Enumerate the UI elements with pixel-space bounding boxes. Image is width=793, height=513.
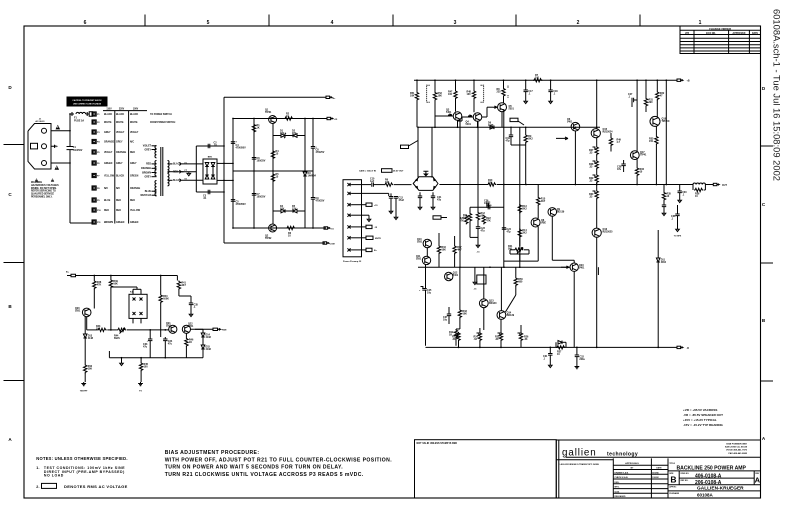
svg-text:-VR = -65.5V SPEAKER OUT: -VR = -65.5V SPEAKER OUT xyxy=(683,413,723,417)
ground c35 xyxy=(189,313,193,317)
wire J2 pin2 feedback xyxy=(362,192,389,194)
transistor Q13 driver pnp xyxy=(479,299,488,308)
warning triangle top xyxy=(56,125,61,130)
svg-text:10K: 10K xyxy=(113,283,118,286)
svg-text:ORANGE: ORANGE xyxy=(104,141,115,144)
svg-text:OUT: OUT xyxy=(722,185,727,187)
svg-text:47u: 47u xyxy=(481,230,486,233)
svg-text:47u: 47u xyxy=(143,346,148,349)
capacitor C1 line filter xyxy=(67,147,74,150)
capacitor C10 input coupling xyxy=(372,182,374,186)
capacitor C30 xyxy=(678,191,682,193)
wire secondary V2 to bridge xyxy=(184,179,204,181)
svg-text:220u: 220u xyxy=(579,358,585,361)
resistor R42 xyxy=(83,364,86,373)
connector J2 power-preamp xyxy=(343,180,362,257)
capacitor C31 xyxy=(548,354,552,356)
wire bias row xyxy=(87,329,98,331)
svg-text:Power Preamp J2: Power Preamp J2 xyxy=(343,261,362,263)
svg-text:B: B xyxy=(670,475,676,485)
svg-text:VBE: VBE xyxy=(541,222,546,225)
terminal +B rail xyxy=(677,79,681,81)
resistor R40 xyxy=(159,294,162,303)
svg-text:60108A: 60108A xyxy=(697,493,714,498)
resistor R39 xyxy=(109,279,112,288)
svg-text:GREY: GREY xyxy=(104,132,111,134)
svg-text:206-0108-A: 206-0108-A xyxy=(695,480,722,486)
approved-by cell xyxy=(668,490,761,492)
svg-text:GREEN: GREEN xyxy=(116,222,125,224)
svg-text:RED: RED xyxy=(146,164,151,166)
net flag mid xyxy=(510,118,518,121)
svg-text:TURN ON POWER AND WAIT 5 SECON: TURN ON POWER AND WAIT 5 SECONDS FOR TUR… xyxy=(165,465,344,471)
trimpot R44 xyxy=(117,328,126,331)
wire centre bus regulator xyxy=(272,124,274,225)
svg-text:BLACK: BLACK xyxy=(130,113,138,116)
terminal P2 xyxy=(92,120,96,124)
resistor R11 xyxy=(468,213,471,222)
svg-text:5968 PIONEER WAY: 5968 PIONEER WAY xyxy=(726,443,747,446)
svg-text:FILENAME: FILENAME xyxy=(669,492,679,495)
resistor R38 xyxy=(93,280,96,289)
title block outline xyxy=(556,440,760,498)
svg-text:10u: 10u xyxy=(443,319,448,322)
resistor R46 xyxy=(185,338,188,347)
capacitor C8 xyxy=(311,147,315,149)
connector J2 pin 6 xyxy=(347,236,351,239)
terminal +15 at J2 pin3 xyxy=(362,204,367,206)
wire vert 520 xyxy=(519,127,521,267)
svg-text:MFG.: MFG. xyxy=(615,487,620,489)
svg-text:22K: 22K xyxy=(488,182,493,185)
wire vert input xyxy=(417,127,419,177)
svg-text:GREY: GREY xyxy=(116,142,123,144)
svg-text:406-0108-A: 406-0108-A xyxy=(695,473,722,479)
svg-text:2.: 2. xyxy=(36,485,39,489)
chassis ground at J1 middle pin xyxy=(51,145,57,148)
junction dots main xyxy=(416,79,418,81)
wire bridge + output xyxy=(217,162,233,164)
capacitor C22 xyxy=(488,205,490,209)
wire vas vert 460 xyxy=(459,119,461,267)
svg-text:4148: 4148 xyxy=(206,348,212,351)
connector J2 pin 1 xyxy=(347,183,351,186)
wire delay top rail xyxy=(76,275,178,277)
junction dots delay xyxy=(93,275,95,277)
wire h 207 xyxy=(470,206,504,208)
svg-text:TIP32: TIP32 xyxy=(265,237,272,240)
wire J1 line pin to fuse bus xyxy=(51,130,70,132)
svg-text:FUSE 5A: FUSE 5A xyxy=(74,119,84,122)
ground vas xyxy=(476,244,480,248)
resistor R14 xyxy=(518,229,521,238)
svg-text:RED: RED xyxy=(116,200,121,202)
svg-text:CAUTION: TO PREVENT SHOCK: CAUTION: TO PREVENT SHOCK xyxy=(72,99,102,102)
base arrow marker xyxy=(556,137,568,140)
capacitor C35 xyxy=(189,303,193,305)
resistor R4 xyxy=(271,150,274,159)
svg-text:GAIN = 100mV IN: GAIN = 100mV IN xyxy=(359,169,376,172)
terminal -15V unreg xyxy=(324,227,328,229)
svg-text:10K: 10K xyxy=(463,313,468,316)
svg-text:QUALIFIED SERVICE: QUALIFIED SERVICE xyxy=(31,193,55,196)
svg-text:5551: 5551 xyxy=(188,325,194,328)
stamp box xyxy=(415,440,557,498)
title block horizontal divider xyxy=(566,456,761,458)
svg-text:47K: 47K xyxy=(460,220,465,223)
wire rectifier loop left xyxy=(195,146,197,192)
svg-text:1uF: 1uF xyxy=(370,180,375,183)
terminal P4 xyxy=(92,139,96,143)
svg-text:100: 100 xyxy=(448,93,453,96)
resistor R51 xyxy=(416,80,418,91)
svg-text:BLACK: BLACK xyxy=(116,175,124,178)
svg-text:28.5V OUT: 28.5V OUT xyxy=(393,170,404,172)
svg-text:47p: 47p xyxy=(437,199,442,202)
svg-text:2K2: 2K2 xyxy=(528,138,533,141)
resistor R6 input xyxy=(384,183,393,186)
svg-text:DENOTES RMS AC VOLTAGE: DENOTES RMS AC VOLTAGE xyxy=(64,484,128,489)
capacitor C11 xyxy=(389,197,393,199)
svg-text:BIAS: BIAS xyxy=(114,337,120,340)
svg-text:47K: 47K xyxy=(486,220,491,223)
resistor R26 emitter xyxy=(519,332,522,341)
transformer T1 core xyxy=(161,147,163,196)
transistor Q12 xyxy=(445,272,453,280)
svg-text:WHITE: WHITE xyxy=(130,122,138,124)
svg-text:100/25V: 100/25V xyxy=(257,160,266,163)
wire output rail xyxy=(590,184,693,186)
svg-text:1N4004: 1N4004 xyxy=(308,175,317,178)
svg-text:TIP31: TIP31 xyxy=(265,111,272,114)
svg-text:VIOLET: VIOLET xyxy=(143,146,152,148)
svg-text:TIP41: TIP41 xyxy=(640,154,647,157)
svg-text:ENG.: ENG. xyxy=(615,482,620,484)
svg-text:150: 150 xyxy=(649,140,654,143)
svg-text:15V: 15V xyxy=(292,132,297,135)
svg-text:PERSONNEL ONLY.: PERSONNEL ONLY. xyxy=(31,197,53,199)
svg-text:15V: 15V xyxy=(280,208,285,211)
svg-text:REFER SERVICING TO: REFER SERVICING TO xyxy=(31,191,56,193)
svg-text:TIP35C: TIP35C xyxy=(662,120,670,123)
svg-text:LTR: LTR xyxy=(685,33,690,35)
svg-text:BROWN: BROWN xyxy=(142,172,151,174)
svg-text:10u: 10u xyxy=(427,292,432,295)
svg-text:220: 220 xyxy=(497,91,502,94)
svg-text:APPROVED: APPROVED xyxy=(733,32,746,35)
inductor L1 output xyxy=(693,183,705,185)
svg-text:technology: technology xyxy=(607,451,638,457)
wire zener row top xyxy=(273,135,281,137)
wire neutral bus xyxy=(69,150,71,223)
svg-text:10K: 10K xyxy=(442,249,447,252)
test point TP1 xyxy=(81,382,86,386)
capacitor C37 xyxy=(448,307,450,314)
svg-text:NOT VALID UNLESS STAMP IS RED: NOT VALID UNLESS STAMP IS RED xyxy=(417,442,458,445)
resistor R22 xyxy=(482,215,485,224)
high voltage warning banner xyxy=(67,97,108,107)
capacitor C36 output xyxy=(677,205,679,214)
svg-text:VOICE 408-441-7970: VOICE 408-441-7970 xyxy=(726,449,748,452)
svg-text:GALLIEN-KRUEGER: GALLIEN-KRUEGER xyxy=(697,486,744,492)
resistor R37 on rail xyxy=(556,346,565,349)
wire drivers xyxy=(483,267,485,299)
zener D3 xyxy=(303,172,307,176)
frame zone ticks top xyxy=(144,15,146,27)
wire regulator mid rail xyxy=(233,170,313,172)
net flag 433 xyxy=(433,216,441,219)
svg-text:GREEN: GREEN xyxy=(130,222,139,224)
svg-text:APPVD:: APPVD: xyxy=(669,485,677,488)
svg-text:AC-IN-01: AC-IN-01 xyxy=(35,120,45,123)
svg-text:1K: 1K xyxy=(257,127,260,130)
svg-text:TO SPK: TO SPK xyxy=(674,236,682,238)
svg-text:47p: 47p xyxy=(506,140,511,143)
terminal P5 xyxy=(92,150,96,154)
connector J1 AC inlet xyxy=(28,124,51,170)
revision history table xyxy=(680,26,761,54)
connector J2 pin 2 xyxy=(347,192,351,195)
svg-text:100: 100 xyxy=(467,93,472,96)
transistor Q11 xyxy=(422,256,430,264)
wire J2 pin1 to C10 xyxy=(362,184,372,186)
svg-text:ORANGE: ORANGE xyxy=(116,151,127,154)
wire output column xyxy=(596,80,598,129)
wire h 261 xyxy=(504,260,538,262)
transistor Q10 xyxy=(423,239,431,247)
svg-text:N/C: N/C xyxy=(130,142,134,144)
svg-text:5551: 5551 xyxy=(416,258,422,261)
resistor R10 nfb xyxy=(487,183,496,186)
svg-text:2: 2 xyxy=(577,20,580,26)
svg-text:RED: RED xyxy=(116,210,121,212)
svg-text:GREY: GREY xyxy=(116,163,123,165)
resistor R13 xyxy=(518,204,521,213)
svg-text:ECO NO.: ECO NO. xyxy=(706,33,716,35)
resistor R52 xyxy=(434,80,436,91)
capacitor C28 xyxy=(621,164,625,166)
svg-text:TO POWER SWITCH: TO POWER SWITCH xyxy=(150,114,172,116)
svg-text:2K2: 2K2 xyxy=(522,208,527,211)
transistor Q5 vas top xyxy=(498,103,507,112)
svg-text:5551: 5551 xyxy=(75,310,81,313)
resistor R36 parallel L1 xyxy=(694,188,703,191)
transformer secondary winding xyxy=(168,161,170,173)
svg-text:BR1: BR1 xyxy=(208,157,213,159)
svg-text:60108A.sch-1 - Tue Jul 16 15:0: 60108A.sch-1 - Tue Jul 16 15:08:09 2002 xyxy=(772,9,783,181)
wire zener row bottom xyxy=(273,210,281,212)
diode D14 xyxy=(201,333,205,337)
svg-text:GREEN: GREEN xyxy=(104,163,113,165)
trimpot R21 bias adjust xyxy=(514,248,523,251)
svg-text:DRAWN K.A.B.: DRAWN K.A.B. xyxy=(615,471,630,474)
wire bridge - output xyxy=(217,179,233,181)
wire q5 collector xyxy=(501,112,503,128)
svg-text:5551: 5551 xyxy=(166,325,172,328)
svg-text:4148: 4148 xyxy=(488,124,494,127)
secondary net flags xyxy=(179,162,183,165)
terminal B+ raw xyxy=(326,96,330,98)
svg-text:BD139: BD139 xyxy=(507,314,515,317)
transformer primary taps xyxy=(152,145,157,147)
resistor R1 xyxy=(252,124,255,133)
svg-text:4K7: 4K7 xyxy=(541,200,546,203)
diode D11 xyxy=(656,258,660,262)
svg-text:NOTES: UNLESS OTHERWISE SPECIF: NOTES: UNLESS OTHERWISE SPECIFIED. xyxy=(36,456,127,461)
wire rectifier bottom xyxy=(196,191,224,193)
capacitor C27 xyxy=(632,98,634,102)
svg-text:10/3/95: 10/3/95 xyxy=(652,472,660,474)
svg-text:WITH POWER OFF, ADJUST POT R21: WITH POWER OFF, ADJUST POT R21 TO FULL C… xyxy=(165,457,393,463)
wire V- rail xyxy=(426,346,678,348)
wire neutral to P11 xyxy=(70,222,92,224)
svg-text:100p: 100p xyxy=(484,202,490,205)
wire q3 q4 bases xyxy=(435,115,453,117)
svg-text:QUA.: QUA. xyxy=(615,490,620,493)
zener D1 xyxy=(281,134,285,138)
resistor R19 xyxy=(454,329,457,338)
svg-text:100/25V: 100/25V xyxy=(257,196,266,199)
wire nfb to vas xyxy=(497,184,575,186)
svg-text:N/C: N/C xyxy=(104,188,108,190)
svg-text:BD139: BD139 xyxy=(557,211,565,214)
terminal -B rail xyxy=(677,346,681,348)
capacitor C19 xyxy=(509,135,513,137)
resistor R41 xyxy=(177,281,180,290)
transformer T1 primary winding xyxy=(155,146,157,158)
capacitor C12 xyxy=(394,197,398,199)
capacitor C6 xyxy=(252,158,256,160)
wire bridge out xyxy=(439,184,487,186)
svg-text:6: 6 xyxy=(84,20,87,26)
resistor R47 xyxy=(454,90,457,99)
svg-text:TITLE: TITLE xyxy=(669,463,675,465)
colour table grid xyxy=(103,111,147,224)
wire to output terminal xyxy=(705,184,713,186)
capacitor C32 xyxy=(575,355,579,357)
svg-text:COM: COM xyxy=(330,244,335,246)
svg-text:1: 1 xyxy=(699,20,702,26)
resistor R43 bias row xyxy=(97,328,106,331)
svg-text:RELEASED: RELEASED xyxy=(615,495,626,498)
wire rectifier top xyxy=(196,145,224,147)
svg-text:INSIDE. DO NOT OPEN.: INSIDE. DO NOT OPEN. xyxy=(31,188,57,190)
svg-text:4K7: 4K7 xyxy=(181,284,186,287)
transistor Q14 xyxy=(497,311,506,320)
svg-text:BD140: BD140 xyxy=(489,302,497,305)
terminal B+ input xyxy=(67,274,76,276)
resistor R8 q5 emitter xyxy=(502,88,505,97)
terminal P8 xyxy=(92,186,96,190)
ground at J2 pin4 xyxy=(362,214,370,216)
svg-text:VIOLET: VIOLET xyxy=(130,132,139,134)
wire -rail regulator xyxy=(233,227,326,229)
frame zone ticks left xyxy=(4,144,25,146)
terminal P10 xyxy=(92,208,96,212)
transistor Q9 driver npn xyxy=(548,208,557,217)
chassis ground on centre tap xyxy=(173,171,197,173)
wire y267 rail xyxy=(418,266,570,268)
svg-text:47uF: 47uF xyxy=(399,199,405,202)
svg-text:ORANGE: ORANGE xyxy=(141,167,152,170)
svg-text:MJ15024: MJ15024 xyxy=(603,131,614,134)
svg-text:4700/50V: 4700/50V xyxy=(236,203,247,206)
svg-text:5551: 5551 xyxy=(417,241,423,244)
svg-text:TURN R21 CLOCKWISE UNTIL VOLTA: TURN R21 CLOCKWISE UNTIL VOLTAGE ACCROSS… xyxy=(165,472,364,478)
svg-text:RED: RED xyxy=(130,200,135,202)
svg-text:WHITE: WHITE xyxy=(116,122,124,124)
wire V+ rail xyxy=(414,79,677,81)
svg-text:5401: 5401 xyxy=(466,123,472,126)
transistor Q20 delay xyxy=(82,308,91,317)
transistor Q4 current source xyxy=(473,113,482,122)
emitter resistor chain R27 xyxy=(595,146,598,155)
svg-text:100K: 100K xyxy=(163,298,169,301)
fuse F1 xyxy=(70,112,74,116)
svg-text:BLUE: BLUE xyxy=(145,191,152,193)
capacitor C18 rail decoupling xyxy=(548,90,552,92)
wire live bus xyxy=(69,114,71,147)
wire k1 top xyxy=(133,288,141,290)
svg-text:15V: 15V xyxy=(292,208,297,211)
resistor R45 xyxy=(139,362,142,371)
svg-text:5401: 5401 xyxy=(446,111,452,114)
svg-text:CHANGE ORDER: CHANGE ORDER xyxy=(709,27,731,31)
ground C18 xyxy=(549,100,553,104)
svg-text:FAX 408-441-8085: FAX 408-441-8085 xyxy=(729,452,748,455)
svg-text:3: 3 xyxy=(454,20,457,26)
transistor Q17 driver xyxy=(630,151,639,160)
resistor R32 xyxy=(656,91,659,100)
svg-text:1/30/02: 1/30/02 xyxy=(652,477,660,479)
resistor R34 xyxy=(635,167,638,176)
input diode bridge D7-D10 xyxy=(413,177,438,191)
terminal common xyxy=(323,242,327,244)
svg-text:1K: 1K xyxy=(189,341,192,344)
net flag nfb xyxy=(401,145,409,148)
secondary taps xyxy=(168,163,173,165)
svg-text:RED: RED xyxy=(104,210,109,212)
terminal +15V unreg xyxy=(327,117,331,119)
resistor R3 xyxy=(286,226,295,229)
ground below C12 xyxy=(395,198,397,216)
capacitor C2 snubber top xyxy=(208,144,210,148)
wire +rail regulator xyxy=(233,118,327,120)
relay K1 box xyxy=(129,294,147,318)
svg-text:+VR = +65.5V VACROSS: +VR = +65.5V VACROSS xyxy=(683,408,717,412)
resistor R49 base stopper xyxy=(609,137,612,146)
transistor Q3 current source xyxy=(453,112,462,121)
capacitor C26 xyxy=(487,203,489,207)
capacitor C20 below bridge xyxy=(418,196,422,198)
svg-text:4K7: 4K7 xyxy=(457,249,462,252)
wire C10 to R6 xyxy=(373,184,384,186)
wire vas vert 478 xyxy=(477,122,479,208)
capacitor C29 zobel xyxy=(662,205,666,207)
svg-text:4: 4 xyxy=(331,20,334,26)
wire bus 254 xyxy=(253,119,255,229)
capacitor C33 xyxy=(148,339,152,341)
notes rms voltage box xyxy=(42,483,57,488)
capacitor C7 xyxy=(252,194,256,196)
terminal P6 xyxy=(92,161,96,165)
warning triangle bottom xyxy=(55,165,60,170)
terminal B+ at J2 pin7 xyxy=(362,249,367,251)
svg-text:NO LOAD: NO LOAD xyxy=(44,473,64,477)
wire bus 313 xyxy=(312,119,314,147)
wire J1 neutral pin to bus xyxy=(51,162,70,164)
ground below C11 xyxy=(390,198,392,210)
